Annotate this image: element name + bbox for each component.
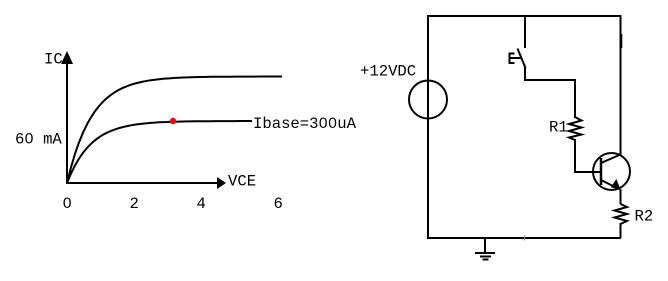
switch S1 <box>510 49 526 69</box>
svg-text:VCE: VCE <box>228 173 256 191</box>
resistor R2 <box>615 204 628 224</box>
wire top rail <box>428 15 621 17</box>
wire bottom rail <box>427 237 621 239</box>
node operating point (red dot) <box>170 118 176 124</box>
node zero-glyph patches <box>27 120 333 203</box>
svg-text:2: 2 <box>130 195 139 213</box>
svg-text:6: 6 <box>274 195 283 213</box>
wire R1 to base <box>575 139 601 172</box>
wire switch branch upper <box>524 16 526 48</box>
wire right rail thick segment <box>621 34 623 48</box>
resistor R1 <box>569 117 582 140</box>
wire upper collector curve <box>67 77 282 184</box>
wire right rail (collector) <box>620 15 622 155</box>
ground <box>475 238 495 260</box>
wire x-axis <box>66 182 219 184</box>
node y-axis arrowhead <box>61 51 73 64</box>
wire switch to R1 <box>525 67 575 118</box>
svg-text:+12VDC: +12VDC <box>360 63 416 81</box>
wire emitter to R2 <box>620 189 622 204</box>
wire left rail <box>427 15 429 238</box>
svg-text:R1: R1 <box>549 119 568 137</box>
voltage source V1 +12VDC <box>409 81 447 119</box>
wire R2 to bottom rail <box>620 223 622 238</box>
wire lower collector curve Ibase=300uA <box>67 121 252 183</box>
svg-text:60 mA: 60 mA <box>15 131 62 149</box>
node x-axis arrowhead <box>217 177 226 189</box>
svg-text:R2: R2 <box>635 208 654 226</box>
svg-text:0: 0 <box>63 195 72 213</box>
svg-text:4: 4 <box>197 195 206 213</box>
transistor Q1 <box>593 153 630 190</box>
svg-text:IC: IC <box>44 51 63 69</box>
node junction tick on bottom rail <box>524 236 526 241</box>
svg-text:Ibase=300uA: Ibase=300uA <box>253 115 357 133</box>
wire y-axis <box>66 58 68 184</box>
